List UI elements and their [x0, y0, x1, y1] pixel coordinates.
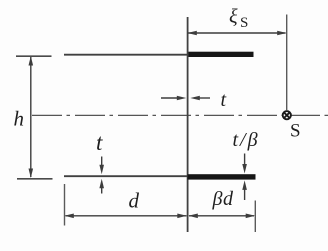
t dimension arrows at bottom flange	[99, 157, 104, 194]
h dimension line	[29, 56, 34, 178]
left extension line (flange left end)	[64, 184, 66, 226]
label h	[14, 107, 25, 131]
t/beta dimension arrows at right flange	[242, 154, 247, 201]
label S (shear center)	[290, 121, 301, 142]
web line (with extensions above and below)	[187, 17, 189, 232]
svg-text:t: t	[96, 130, 103, 155]
svg-text:t: t	[221, 89, 227, 111]
svg-text:ξ: ξ	[229, 6, 238, 28]
svg-text:h: h	[14, 107, 25, 131]
label t/beta	[233, 129, 260, 151]
svg-text:t/β: t/β	[233, 129, 260, 151]
top flange thick bar	[188, 52, 254, 57]
bottom flange thin line	[64, 175, 189, 177]
shear center symbol (circle with diagonal cross)	[283, 111, 291, 119]
top flange thin line	[64, 54, 189, 56]
beta-d dimension line	[188, 214, 255, 219]
xi_s right extension line down to shear center	[286, 15, 288, 111]
xi_s dimension line	[187, 31, 286, 36]
label xi_s	[229, 6, 248, 32]
t dimension arrows at web	[161, 96, 210, 101]
label d	[129, 189, 140, 213]
bottom flange thick bar	[188, 174, 256, 179]
right extension line (flange right end)	[254, 201, 256, 233]
label t (web thickness)	[221, 89, 227, 111]
centerline (dash-dot axis through section and shear center)	[32, 114, 328, 116]
svg-text:S: S	[290, 121, 301, 142]
label beta-d	[212, 188, 234, 210]
label t (bottom flange thickness)	[96, 130, 103, 155]
svg-text:d: d	[129, 189, 140, 213]
svg-text:βd: βd	[212, 188, 234, 210]
svg-text:S: S	[240, 15, 248, 31]
h top tick	[16, 55, 52, 57]
d dimension line	[64, 214, 187, 219]
h bottom tick	[17, 178, 53, 180]
